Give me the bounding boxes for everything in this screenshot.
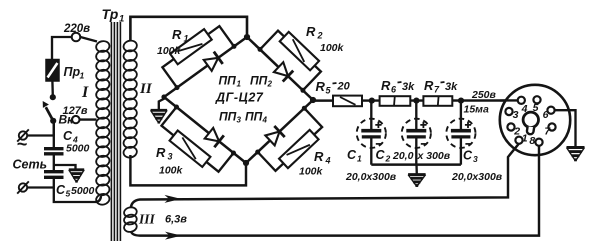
- socket pin 6: [547, 107, 554, 114]
- svg-text:~: ~: [17, 134, 28, 154]
- winding III (heater): [123, 206, 138, 233]
- svg-text:1: 1: [237, 80, 242, 89]
- wire midpoint to ground: [54, 165, 76, 170]
- label PP2: [250, 74, 273, 89]
- arrow heater bottom: [165, 232, 182, 240]
- wire bridge edge top-right: [247, 37, 313, 100]
- svg-text:20,0: 20,0: [392, 150, 414, 162]
- ground filter capacitors: [408, 175, 426, 187]
- terminal mains bottom: [17, 181, 29, 193]
- svg-text:2: 2: [317, 31, 323, 41]
- svg-text:х 300в: х 300в: [417, 150, 451, 162]
- svg-text:1: 1: [184, 34, 189, 44]
- svg-text:1: 1: [522, 133, 528, 145]
- svg-text:1: 1: [357, 154, 362, 164]
- svg-text:ПП: ПП: [250, 74, 268, 88]
- wire pin 6 to ground: [555, 110, 576, 147]
- svg-text:С: С: [63, 129, 73, 143]
- resistor R3: [162, 105, 237, 172]
- svg-text:100k: 100k: [299, 166, 324, 178]
- svg-text:15ма: 15ма: [464, 104, 489, 116]
- label Пр1: [64, 65, 85, 81]
- socket keyway: [523, 112, 538, 134]
- junction bridge top: [244, 34, 250, 40]
- capacitor C5: [44, 172, 64, 178]
- ground mains filter: [69, 170, 84, 183]
- label C4: [63, 129, 90, 155]
- diode PP4: [265, 126, 285, 146]
- svg-text:250в: 250в: [471, 89, 497, 101]
- svg-text:С: С: [376, 148, 386, 162]
- junction rail C1: [369, 98, 375, 104]
- capacitor C4: [44, 149, 64, 154]
- svg-text:ДГ-Ц27: ДГ-Ц27: [215, 91, 264, 105]
- svg-text:I: I: [81, 84, 89, 101]
- diode PP2: [273, 62, 293, 82]
- svg-text:Тр: Тр: [102, 6, 119, 22]
- svg-text:R: R: [306, 24, 316, 39]
- svg-text:5: 5: [66, 189, 71, 199]
- socket pin 1: [515, 137, 522, 144]
- wire rail into pin 4: [500, 99, 518, 101]
- resistor R1: [162, 26, 236, 90]
- junction bridge left: [161, 94, 166, 99]
- svg-text:ПП: ПП: [219, 74, 237, 88]
- resistor R6: [380, 96, 411, 106]
- terminal 127v tap: [72, 116, 79, 123]
- resistor R2: [258, 31, 321, 93]
- wire C5 to primary bottom: [54, 177, 101, 202]
- transformer core: [111, 22, 120, 241]
- label Tr1: [102, 6, 125, 25]
- svg-text:2: 2: [385, 154, 391, 164]
- wire C4 to C5: [53, 154, 55, 172]
- wire rail to ground: [415, 165, 418, 175]
- wire output rail: [313, 99, 518, 102]
- svg-text:20,0х300в: 20,0х300в: [451, 171, 503, 183]
- wire heater bottom: [131, 146, 539, 236]
- svg-text:100k: 100k: [159, 165, 184, 177]
- svg-text:3: 3: [513, 109, 519, 121]
- socket pin 5: [533, 96, 540, 103]
- label ~Сеть: [13, 134, 48, 172]
- svg-text:R: R: [172, 27, 182, 42]
- svg-text:6,3в: 6,3в: [165, 214, 187, 226]
- svg-text:2: 2: [513, 126, 520, 138]
- junction rail C3: [458, 98, 464, 104]
- svg-text:5000: 5000: [66, 143, 90, 155]
- svg-text:ПП: ПП: [219, 110, 237, 124]
- svg-text:6: 6: [543, 109, 549, 121]
- socket pin 4: [518, 97, 525, 104]
- label PP4: [245, 110, 268, 125]
- wire bridge edge bottom-right: [246, 100, 313, 163]
- svg-text:R: R: [316, 79, 326, 94]
- svg-text:8: 8: [529, 135, 535, 147]
- label R5 20: [316, 79, 351, 96]
- svg-text:3: 3: [473, 154, 478, 164]
- capacitor C3: [446, 101, 475, 165]
- svg-text:20: 20: [337, 81, 351, 93]
- svg-text:5000: 5000: [71, 185, 95, 197]
- wire fuse to switch: [51, 81, 54, 96]
- label PP1: [219, 74, 242, 89]
- wire bridge edge bottom-left: [164, 97, 246, 163]
- svg-text:3k: 3k: [402, 81, 415, 93]
- wire bridge left to ground: [159, 99, 165, 111]
- svg-text:R: R: [381, 78, 391, 93]
- label R1 100k: [157, 27, 189, 57]
- wire bridge edge top-left: [164, 37, 247, 97]
- label C5: [56, 183, 95, 199]
- label R6 3k: [381, 78, 415, 95]
- socket pin 8: [535, 139, 542, 146]
- fuse Пр1: [46, 60, 59, 82]
- socket pin 7: [548, 123, 555, 130]
- svg-text:R: R: [424, 78, 434, 93]
- svg-text:127в: 127в: [63, 105, 88, 117]
- svg-text:4: 4: [325, 156, 331, 166]
- wire 220v tap: [52, 37, 97, 60]
- wire mains-top terminal to fuse node: [27, 121, 54, 136]
- resistor R7: [423, 96, 452, 106]
- label PP3: [219, 110, 242, 125]
- label R3 100k: [156, 145, 184, 177]
- resistor R5: [333, 96, 362, 107]
- label C1 20,0x300в: [345, 148, 397, 183]
- svg-text:100k: 100k: [157, 45, 182, 57]
- svg-text:R: R: [314, 149, 324, 164]
- label R4 100k: [299, 149, 331, 178]
- svg-text:1: 1: [80, 71, 85, 81]
- wire winding II bottom to bridge bottom: [130, 155, 246, 185]
- tube socket outline: [500, 85, 570, 155]
- ground socket: [567, 148, 585, 162]
- svg-text:R: R: [156, 145, 166, 160]
- junction bridge bottom: [243, 160, 249, 166]
- svg-text:3: 3: [168, 152, 173, 162]
- capacitor C2: [402, 101, 431, 165]
- junction rail C2: [413, 98, 419, 104]
- ground bridge negative: [151, 110, 168, 123]
- svg-text:2: 2: [267, 80, 273, 89]
- wire winding II top to bridge top: [130, 17, 247, 41]
- label R2 100k: [306, 24, 345, 54]
- svg-text:ПП: ПП: [245, 110, 263, 124]
- winding II (secondary HV): [123, 39, 138, 158]
- svg-text:II: II: [139, 81, 153, 97]
- winding I (primary): [95, 40, 110, 206]
- wire mains node vertical: [53, 121, 55, 148]
- svg-text:3k: 3k: [445, 81, 458, 93]
- svg-text:С: С: [347, 148, 357, 162]
- capacitor C1: [357, 101, 386, 165]
- svg-text:220в: 220в: [63, 23, 90, 35]
- svg-text:III: III: [138, 212, 156, 227]
- svg-text:100k: 100k: [320, 42, 345, 54]
- wire capacitor ground rail: [371, 163, 461, 165]
- wire mains-bottom terminal: [27, 186, 54, 188]
- diode PP1: [203, 52, 222, 72]
- svg-text:5: 5: [533, 102, 539, 114]
- svg-text:20,0х300в: 20,0х300в: [345, 171, 397, 183]
- diode PP3: [204, 127, 224, 147]
- junction bridge right: [310, 97, 316, 103]
- wire heater top: [131, 144, 519, 209]
- arrow heater top: [165, 195, 182, 203]
- svg-text:С: С: [463, 149, 473, 163]
- socket pin 3: [505, 108, 512, 115]
- svg-text:С: С: [56, 183, 66, 197]
- label C3 20,0x300в: [451, 149, 503, 184]
- svg-text:3: 3: [237, 116, 242, 125]
- resistor R4: [255, 106, 322, 171]
- terminal mains top: [17, 129, 29, 141]
- socket pin 2: [507, 123, 514, 130]
- label C2 20,0 x 300в: [376, 148, 451, 164]
- wire 127v tap to winding: [80, 118, 97, 120]
- svg-text:Пр: Пр: [64, 65, 81, 79]
- switch Вк: [43, 94, 57, 124]
- label R7 3k: [424, 78, 458, 95]
- svg-text:4: 4: [521, 103, 528, 115]
- svg-text:4: 4: [262, 116, 268, 125]
- label Вк: [59, 113, 75, 127]
- svg-text:Сеть: Сеть: [13, 158, 48, 172]
- terminal 220v tap: [72, 33, 81, 42]
